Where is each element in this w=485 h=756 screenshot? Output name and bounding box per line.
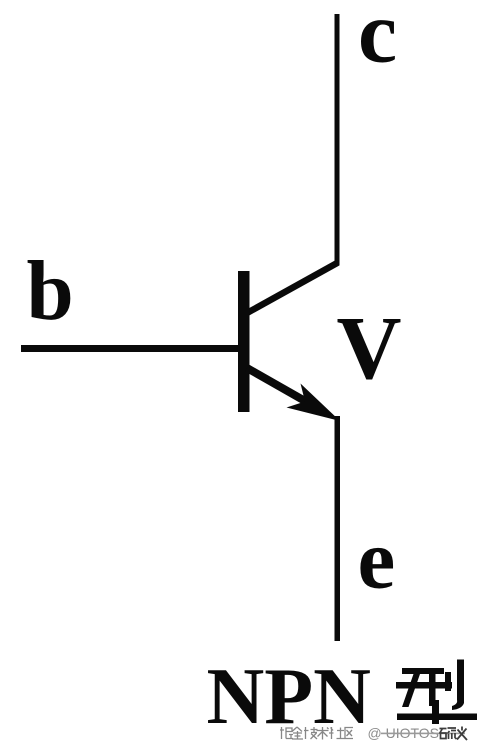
watermark char 掘: [280, 727, 293, 739]
watermark char 硫 (dark): [440, 728, 457, 739]
watermark CJK chars 掘金技术社区 (approximated strokes): [280, 727, 353, 740]
base wire horizontal: [21, 345, 243, 352]
base bar of transistor: [238, 271, 250, 412]
svg-text:c: c: [358, 0, 397, 82]
top short horizontal of 开: [402, 668, 444, 674]
svg-text:b: b: [27, 244, 74, 338]
bottom long horizontal of 土: [397, 714, 477, 721]
short stroke of 刂: [445, 672, 451, 691]
watermark char 技: [304, 727, 318, 739]
vertical of 土: [432, 700, 439, 724]
svg-text:e: e: [358, 513, 396, 607]
watermark char 社: [329, 727, 345, 739]
emitter arrowhead: [287, 384, 341, 422]
watermark char 术: [317, 727, 329, 740]
long vertical of 刂 with hook: [452, 660, 464, 711]
watermark strikethrough line: [381, 733, 465, 735]
emitter wire vertical: [335, 416, 341, 641]
watermark char 火 (dark): [457, 727, 467, 741]
svg-text:V: V: [337, 299, 402, 398]
long horizontal of 开: [396, 682, 452, 689]
right vertical leg of 开: [429, 674, 436, 706]
left slanted leg of 开: [402, 674, 420, 707]
emitter diagonal wire: [247, 368, 312, 405]
watermark: gray text over art: [280, 725, 467, 741]
watermark char 区: [345, 728, 353, 739]
caption Chinese character 型 (type), hand-drawn strokes: [396, 660, 477, 725]
transistor Q (NPN) : collector wire vertical: [335, 14, 340, 265]
collector diagonal wire: [247, 263, 338, 314]
watermark char 金: [292, 727, 303, 739]
